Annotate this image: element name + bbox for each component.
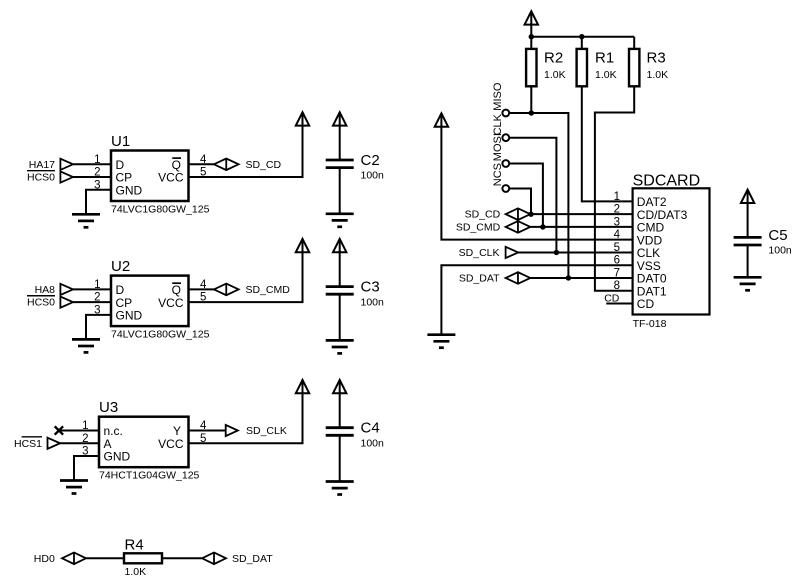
wire MOSI [509, 164, 543, 227]
svg-text:GND: GND [116, 183, 143, 197]
input port HCS0 [60, 297, 73, 308]
capacitor C3 100n [326, 287, 354, 295]
svg-text:U3: U3 [99, 399, 118, 416]
pin 5 VCC wire [189, 392, 303, 443]
wire [86, 557, 124, 559]
svg-text:1: 1 [82, 420, 88, 432]
bidir port SD_CD [214, 159, 239, 171]
VCC arrow for U2 pin 5 [296, 239, 309, 252]
wire [581, 37, 583, 49]
svg-text:R1: R1 [595, 50, 614, 67]
svg-text:HA8: HA8 [35, 284, 56, 296]
input port HA17 [60, 159, 73, 170]
svg-text:R4: R4 [125, 537, 144, 554]
input port HCS1 [48, 438, 61, 449]
resistor R3 1.0K [629, 49, 639, 86]
pad CLK [502, 134, 509, 141]
svg-text:C5: C5 [768, 227, 787, 244]
svg-text:100n: 100n [768, 245, 792, 257]
pull-up rail wire [531, 36, 634, 38]
svg-text:74LVC1G80GW_125: 74LVC1G80GW_125 [111, 204, 210, 216]
svg-text:SD_DAT: SD_DAT [459, 272, 500, 284]
wire R3 to DAT1 pin 8 [595, 86, 634, 290]
junction NCS [528, 211, 533, 216]
pin 4 output wire [189, 430, 226, 432]
svg-text:100n: 100n [361, 437, 385, 449]
ground below C2 [326, 214, 354, 227]
wire [339, 392, 341, 428]
junction CLK [554, 250, 559, 255]
svg-text:CLK: CLK [492, 113, 504, 135]
svg-text:MOSI: MOSI [492, 133, 504, 161]
svg-text:SD_CMD: SD_CMD [246, 284, 291, 296]
capacitor C5 100n [734, 237, 762, 245]
pin 1 wire [73, 288, 111, 290]
no-connect X on pin 1 [55, 426, 63, 434]
bidir port SD_CMD [214, 284, 239, 296]
wire [530, 23, 532, 37]
pin 2 wire [73, 176, 111, 178]
pin 1 wire [73, 163, 111, 165]
svg-text:1.0K: 1.0K [595, 69, 617, 81]
wire VSS [441, 265, 632, 335]
bidir port HD0 [62, 553, 86, 565]
svg-text:74LVC1G80GW_125: 74LVC1G80GW_125 [111, 329, 210, 341]
ground for VSS [427, 335, 455, 348]
resistor R1 1.0K [577, 49, 587, 86]
svg-text:C2: C2 [361, 152, 380, 169]
wire SD_CMD to pin 3 [530, 226, 632, 228]
IC U1 74LVC1G80GW_125 [111, 151, 189, 202]
svg-text:5: 5 [614, 242, 620, 254]
svg-text:8: 8 [614, 280, 620, 292]
pin CD wire (stub) [606, 302, 632, 304]
wire [339, 435, 341, 481]
wire VDD [441, 125, 632, 239]
capacitor C4 100n [326, 428, 354, 436]
svg-text:100n: 100n [361, 170, 385, 182]
wire [633, 37, 635, 49]
wire [339, 251, 341, 287]
wire SD_DAT to pin 7 [530, 277, 632, 279]
svg-text:1: 1 [94, 154, 100, 166]
svg-text:SDCARD: SDCARD [633, 172, 701, 189]
VCC arrow for U3 pin 5 [296, 380, 309, 393]
svg-text:1.0K: 1.0K [544, 69, 566, 81]
svg-text:VCC: VCC [158, 171, 184, 185]
VCC arrow for U1 pin 5 [296, 112, 309, 125]
ground below C4 [326, 482, 354, 495]
svg-text:SD_CLK: SD_CLK [459, 247, 500, 259]
svg-text:6: 6 [614, 255, 620, 267]
IC U3 74HCT1G04GW_125 [99, 417, 189, 468]
wire MISO [509, 113, 568, 278]
svg-text:100n: 100n [361, 296, 385, 308]
svg-text:C4: C4 [361, 420, 380, 437]
wire SD_CLK to pin 5 [518, 251, 632, 253]
ground under U2 [72, 339, 100, 352]
pad MISO [502, 110, 509, 117]
svg-text:1.0K: 1.0K [125, 566, 147, 578]
svg-text:7: 7 [614, 267, 620, 279]
svg-text:3: 3 [94, 304, 100, 316]
VCC arrow above C2 [333, 112, 346, 125]
output port SD_CLK [226, 425, 238, 436]
VCC arrow above C5 [741, 190, 754, 203]
pad MOSI [502, 160, 509, 167]
svg-text:SD_DAT: SD_DAT [232, 553, 273, 565]
svg-text:VCC: VCC [158, 296, 184, 310]
svg-text:1: 1 [94, 279, 100, 291]
bidir port SD_CMD [506, 221, 531, 233]
ground below C5 [734, 277, 762, 290]
wire [530, 37, 532, 49]
svg-text:SD_CMD: SD_CMD [456, 221, 501, 233]
resistor R2 1.0K [526, 49, 536, 86]
pin 2 wire [73, 301, 111, 303]
wire NCS [509, 189, 531, 215]
capacitor C2 100n [326, 160, 354, 168]
svg-text:R3: R3 [647, 50, 666, 67]
junction [579, 34, 584, 39]
junction MISO [566, 275, 571, 280]
svg-text:NCS: NCS [492, 163, 504, 186]
VCC arrow for VDD [435, 113, 448, 126]
svg-text:HD0: HD0 [34, 553, 55, 565]
svg-text:HCS1: HCS1 [14, 438, 42, 450]
svg-text:GND: GND [116, 309, 143, 323]
wire [339, 124, 341, 160]
svg-text:2: 2 [94, 167, 100, 179]
svg-text:C3: C3 [361, 279, 380, 296]
wire R1 to DAT2 pin 1 [582, 86, 633, 201]
input port HA8 [60, 284, 73, 295]
IC U2 74LVC1G80GW_125 [111, 276, 189, 327]
junction MOSI [540, 224, 545, 229]
wire [339, 168, 341, 214]
wire [339, 294, 341, 340]
svg-text:3: 3 [94, 179, 100, 191]
input port SD_CLK [506, 247, 519, 258]
pin 3 wire to ground [74, 456, 99, 481]
VCC arrow above C4 [333, 380, 346, 393]
junction [529, 34, 534, 39]
pin 2 wire [59, 442, 99, 444]
wire [162, 557, 202, 559]
svg-text:SD_CLK: SD_CLK [246, 425, 287, 437]
svg-text:HCS0: HCS0 [27, 297, 55, 309]
ground below C3 [326, 340, 354, 353]
svg-text:MISO: MISO [492, 82, 504, 111]
svg-text:1: 1 [614, 191, 620, 203]
wire CLK [509, 138, 556, 253]
wire SD_CD to pin 2 [530, 213, 632, 215]
bidir port SD_DAT [506, 272, 531, 284]
pin 4 output wire [189, 288, 214, 290]
pad NCS [502, 185, 509, 192]
svg-text:1.0K: 1.0K [647, 69, 669, 81]
ground under U3 [60, 481, 88, 494]
svg-text:HCS0: HCS0 [27, 172, 55, 184]
pin 3 wire to ground [86, 190, 111, 215]
pin 4 output wire [189, 163, 214, 165]
ground under U1 [72, 214, 100, 227]
svg-text:HA17: HA17 [29, 159, 55, 171]
svg-text:VCC: VCC [158, 437, 184, 451]
svg-text:4: 4 [614, 229, 621, 241]
svg-text:SD_CD: SD_CD [246, 159, 282, 171]
wire [747, 245, 749, 277]
svg-text:CD: CD [604, 293, 620, 305]
svg-text:2: 2 [614, 204, 620, 216]
pin 5 VCC wire [189, 125, 303, 178]
bidir port SD_DAT [202, 553, 226, 565]
svg-text:CD: CD [637, 297, 655, 311]
svg-text:U1: U1 [111, 133, 130, 150]
wire R2 to MISO line [530, 86, 532, 113]
pin 3 wire to ground [86, 315, 111, 340]
svg-text:3: 3 [82, 446, 88, 458]
pin 1 wire [59, 430, 99, 432]
input port HCS0 [60, 171, 73, 182]
svg-text:74HCT1G04GW_125: 74HCT1G04GW_125 [99, 470, 200, 482]
connector J1 SDCARD TF-018 [633, 188, 710, 314]
svg-text:2: 2 [82, 433, 88, 445]
VCC arrow top (pull-up rail) [525, 11, 538, 24]
pin 5 VCC wire [189, 251, 303, 302]
junction R2/MISO [529, 110, 534, 115]
resistor R4 1.0K [124, 553, 162, 563]
svg-text:SD_CD: SD_CD [465, 209, 501, 221]
svg-text:3: 3 [614, 216, 620, 228]
svg-text:TF-018: TF-018 [633, 318, 667, 330]
svg-text:U2: U2 [111, 258, 130, 275]
svg-text:R2: R2 [544, 50, 563, 67]
bidir port SD_CD [506, 208, 531, 220]
svg-text:2: 2 [94, 292, 100, 304]
svg-text:GND: GND [104, 450, 131, 464]
VCC arrow above C3 [333, 239, 346, 252]
wire [747, 202, 749, 238]
